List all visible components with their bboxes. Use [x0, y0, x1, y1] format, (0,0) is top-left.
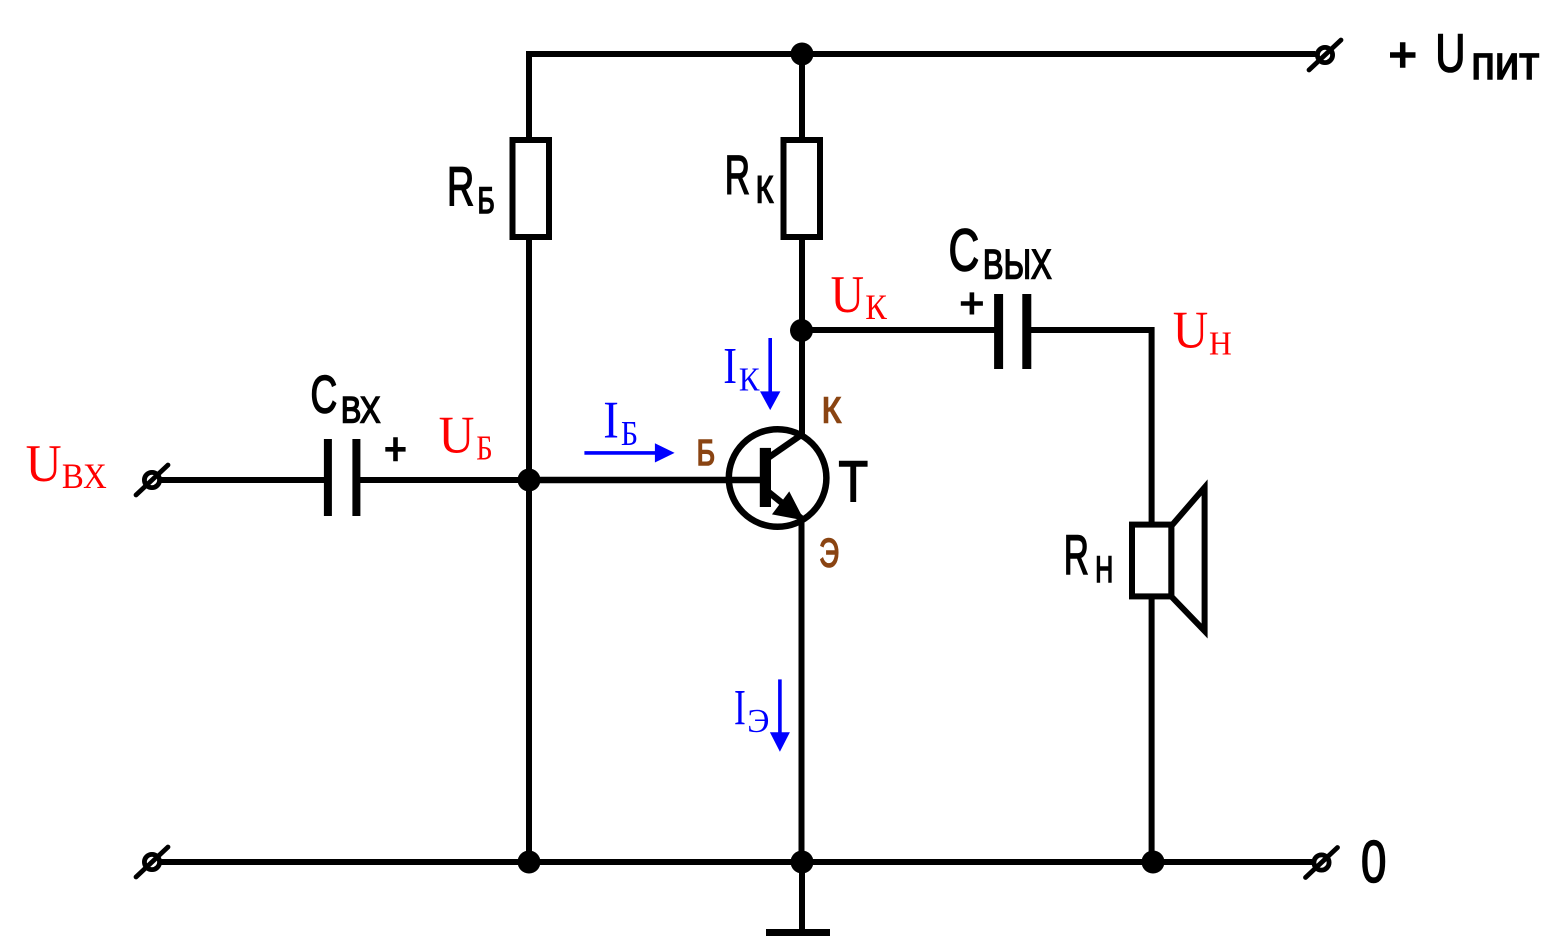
label C_vx sub [341, 390, 380, 431]
transistor emitter arrowhead [775, 494, 802, 518]
svg-text:Б: Б [476, 429, 492, 467]
wire C_vyx to corner down to speaker [1029, 330, 1152, 525]
label U_B sub [476, 429, 492, 467]
wire collector node to C_vyx [802, 327, 997, 333]
label U_N sub [1209, 326, 1232, 363]
junction dot bottom load [1142, 851, 1165, 874]
transistor emitter diagonal [766, 490, 802, 519]
label I_K I [723, 338, 737, 396]
junction dot bottom emitter [791, 851, 814, 874]
pin B (brown) [697, 433, 715, 473]
transistor base bar [760, 448, 771, 507]
svg-text:ВЫХ: ВЫХ [983, 241, 1052, 288]
svg-text:Б: Б [697, 433, 715, 473]
label R_N main [1064, 524, 1089, 586]
label U_vx U [26, 435, 62, 493]
label I_E sub [747, 703, 769, 740]
resistor R_K [784, 140, 821, 237]
ground bar [766, 929, 830, 936]
label C_vx main [311, 364, 338, 424]
label C_vyx sub [983, 241, 1052, 288]
svg-text:Б: Б [621, 415, 638, 454]
label R_K main [725, 143, 750, 205]
svg-text:U: U [831, 265, 864, 324]
svg-text:U: U [1173, 301, 1208, 359]
plus sign at Upit [1390, 42, 1416, 67]
capacitor C_vyx plates [999, 294, 1027, 369]
arrow I_B (blue) [584, 443, 674, 462]
label I_B I [603, 390, 619, 449]
arrow I_E (blue) [770, 679, 790, 751]
label I_B sub [621, 415, 638, 454]
arrow I_K (blue) [760, 338, 780, 410]
label I_E I [734, 681, 746, 737]
junction dot base node U_B [518, 469, 541, 492]
plus sign at C_vx [385, 437, 405, 461]
svg-text:I: I [723, 338, 737, 396]
label U_vx sub [62, 457, 107, 497]
transistor collector diagonal [765, 433, 804, 460]
junction dot bottom left [518, 851, 541, 874]
resistor R_B [513, 140, 550, 237]
svg-text:C: C [949, 216, 980, 283]
terminal input U_vx [136, 465, 168, 495]
label 0 [1361, 829, 1386, 895]
wire C_vx to base node to transistor base [360, 477, 764, 483]
junction dot top rail [791, 43, 814, 66]
svg-text:К: К [822, 391, 841, 431]
wire top rail to +Upit terminal [529, 54, 1316, 140]
wire input terminal to C_vx [160, 477, 325, 483]
label R_B sub [478, 180, 495, 222]
svg-text:Э: Э [819, 532, 839, 576]
wire speaker to bottom rail [1149, 596, 1155, 862]
svg-text:Н: Н [1095, 549, 1113, 590]
svg-text:Э: Э [747, 703, 769, 740]
label U_B U [439, 406, 475, 465]
svg-text:T: T [839, 450, 869, 514]
label U_K sub [865, 287, 888, 327]
label T [839, 450, 869, 514]
pin E (brown) [819, 532, 839, 576]
svg-text:пит: пит [1471, 37, 1539, 90]
svg-text:R: R [447, 156, 474, 218]
label R_K sub [756, 169, 774, 211]
label Upit sub [1471, 37, 1539, 90]
speaker R_N body [1132, 525, 1171, 597]
svg-text:I: I [603, 390, 619, 449]
capacitor C_vx plates [328, 439, 357, 516]
svg-text:U: U [26, 435, 62, 493]
wire R_K branch vertical down to transistor collector [799, 54, 805, 437]
svg-text:R: R [1064, 524, 1089, 586]
svg-text:U: U [439, 406, 475, 465]
terminal +Upit [1309, 40, 1341, 70]
junction dot collector node U_K [790, 319, 813, 342]
wire R_B branch vertical through base node to bottom rail [526, 140, 532, 862]
speaker R_N horn [1171, 487, 1204, 631]
plus sign at C_vyx [961, 292, 983, 314]
wire emitter to bottom rail [799, 519, 805, 862]
transistor T circle [729, 429, 827, 527]
svg-text:0: 0 [1361, 829, 1386, 895]
svg-text:C: C [311, 364, 338, 424]
wire ground stem [799, 862, 805, 930]
wire bottom rail [160, 859, 1312, 865]
label I_K sub [739, 361, 760, 399]
label R_N sub [1095, 549, 1113, 590]
terminal 0 [1306, 848, 1338, 878]
label U_N U [1173, 301, 1208, 359]
svg-text:К: К [756, 169, 774, 211]
svg-text:К: К [739, 361, 760, 399]
label U_K U [831, 265, 864, 324]
pin K (brown) [822, 391, 841, 431]
transistor base wire [529, 477, 764, 484]
label C_vyx main [949, 216, 980, 283]
svg-text:R: R [725, 143, 750, 205]
svg-text:U: U [1435, 23, 1465, 84]
svg-text:I: I [734, 681, 746, 737]
svg-text:Н: Н [1209, 326, 1232, 363]
svg-text:К: К [865, 287, 888, 327]
terminal bottom left [136, 847, 168, 877]
label Upit U [1435, 23, 1465, 84]
svg-text:Б: Б [478, 180, 495, 222]
svg-text:ВХ: ВХ [341, 390, 380, 431]
svg-text:ВХ: ВХ [62, 457, 107, 497]
label R_B main [447, 156, 474, 218]
